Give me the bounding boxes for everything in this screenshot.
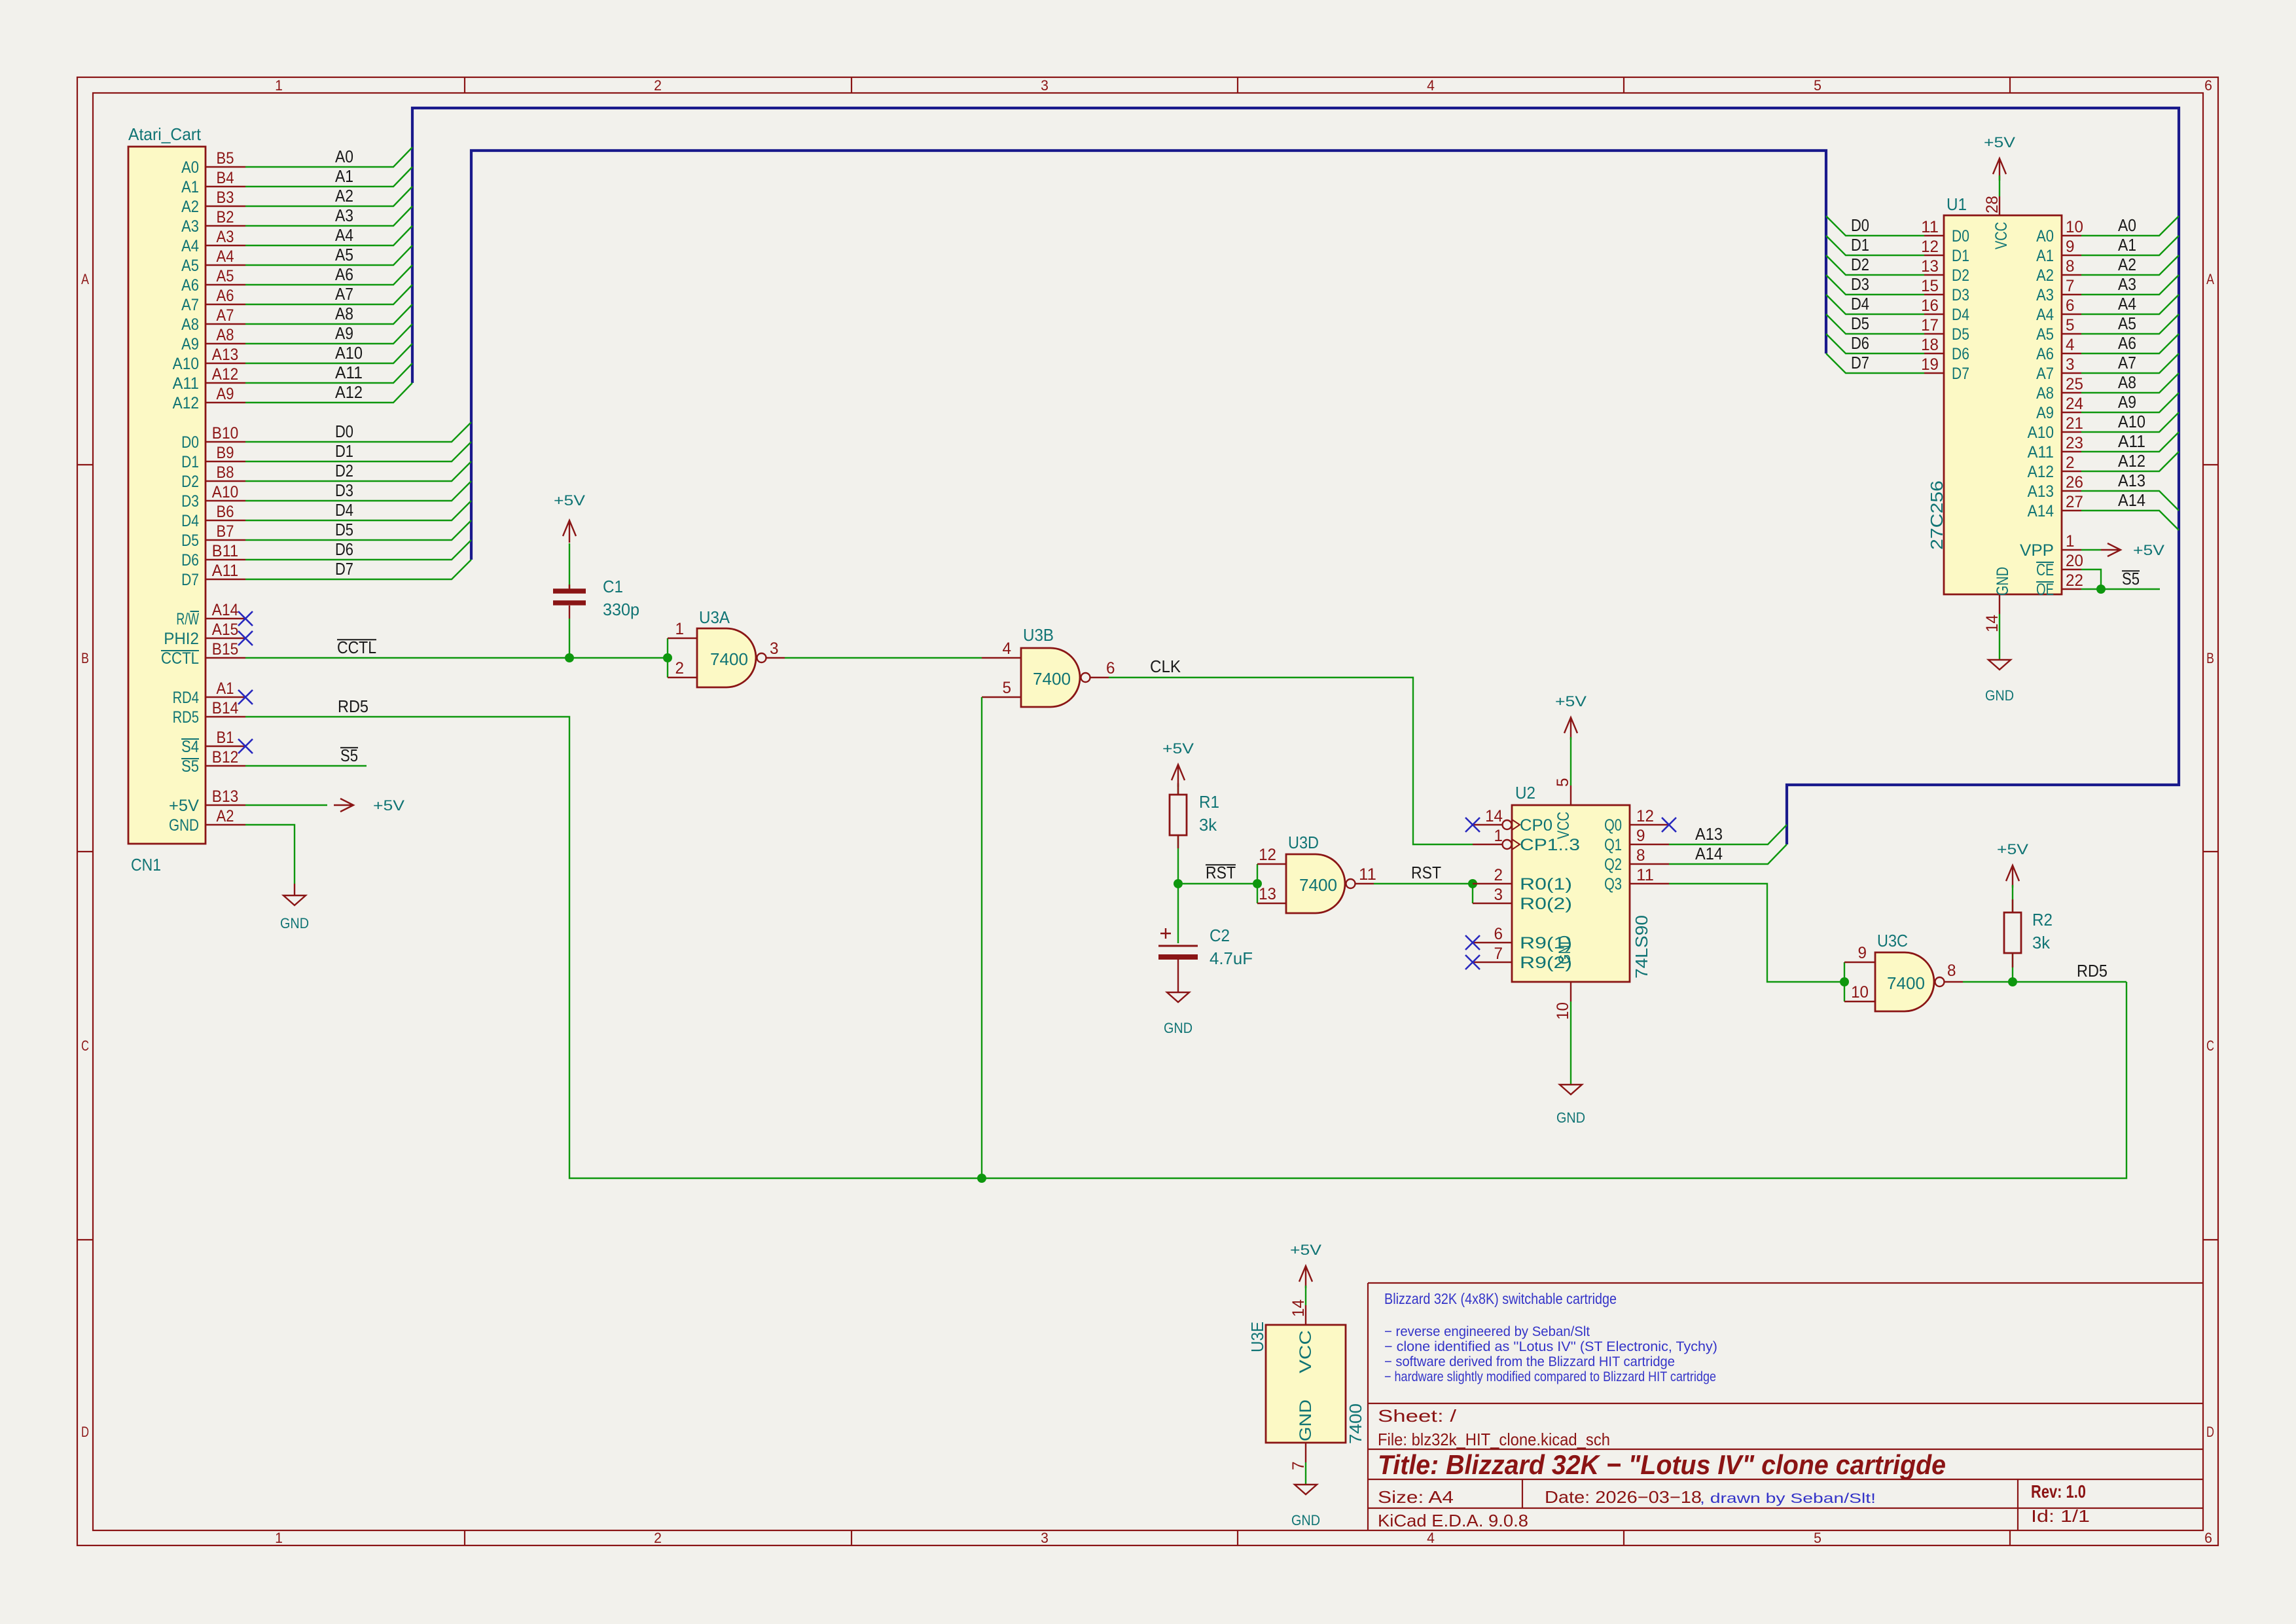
svg-text:A9: A9: [181, 335, 199, 353]
wire U2 Q3 to U3C inputs: [1669, 884, 1844, 982]
svg-text:A8: A8: [181, 316, 199, 334]
CN1 pin A12 (A11 side A): [173, 365, 245, 393]
CN1 pin B2 (A3 side A): [181, 208, 245, 236]
wire net RST from U3D to U2: [1374, 883, 1473, 884]
svg-text:C2: C2: [1210, 926, 1230, 945]
svg-text:5: 5: [1814, 1530, 1821, 1546]
power symbol +5V above R2: [1997, 841, 2028, 888]
svg-text:13: 13: [1921, 257, 1939, 276]
svg-text:RD4: RD4: [173, 689, 199, 707]
wire net A4 from CN1 to address bus: [245, 226, 412, 245]
wire net S5 at U1: [2081, 588, 2160, 590]
svg-text:R1: R1: [1199, 792, 1219, 812]
U1 pin 1 (VPP): [2020, 532, 2081, 560]
CN1 pin A14 (R/W) no-connect: [176, 601, 245, 628]
svg-text:3k: 3k: [2032, 933, 2051, 952]
U1 pin 18 (D6): [1921, 336, 1969, 363]
svg-text:, drawn by Seban/Slt!: , drawn by Seban/Slt!: [1700, 1491, 1876, 1506]
svg-text:12: 12: [1259, 846, 1276, 864]
CN1 pin B1 (S4) no-connect: [181, 729, 245, 756]
CN1 pin A2 (GND): [169, 807, 245, 835]
CN1 pin B12 (S5): [181, 748, 245, 776]
svg-text:OE: OE: [2036, 581, 2054, 599]
svg-text:D0: D0: [1952, 227, 1969, 245]
U1 pin 15 (D3): [1921, 277, 1969, 304]
svg-text:D6: D6: [1952, 345, 1969, 363]
svg-text:5: 5: [2066, 316, 2075, 334]
power symbol +5V above R1: [1162, 740, 1194, 787]
svg-text:7400: 7400: [1887, 973, 1925, 993]
comment bullet lines: [1384, 1324, 1717, 1384]
CN1 pin A3 (A4 side A): [181, 228, 245, 255]
U1 pin 26 (A13): [2028, 473, 2083, 501]
svg-text:10: 10: [1554, 1002, 1572, 1020]
svg-text:14: 14: [1485, 807, 1503, 825]
svg-text:R9(2): R9(2): [1520, 954, 1572, 972]
U1 pin 13 (D2): [1921, 257, 1969, 285]
svg-text:A10: A10: [173, 355, 199, 373]
wire +5V from CN1: [245, 804, 327, 806]
svg-text:U3D: U3D: [1288, 833, 1319, 852]
CN1 pin A13 (A10 side A): [173, 346, 245, 373]
ground symbol below C2: [1167, 992, 1189, 1002]
svg-text:8: 8: [1636, 846, 1645, 865]
power symbol +5V above U3E: [1290, 1242, 1321, 1288]
wire net A11 from CN1 to address bus: [245, 363, 412, 383]
svg-text:11: 11: [1636, 866, 1654, 884]
wire U3C output to RD5 net: [1963, 981, 2126, 983]
junction U3C inputs: [1840, 977, 1849, 986]
svg-text:A0: A0: [181, 158, 199, 177]
wire GND from CN1: [245, 825, 295, 884]
svg-text:A4: A4: [2036, 306, 2054, 324]
svg-text:GND: GND: [1556, 1110, 1585, 1126]
wire R1 to RST node: [1177, 835, 1179, 884]
junction CCTL / C1: [565, 653, 574, 662]
svg-text:A9: A9: [335, 323, 353, 343]
wire RST-bar node down to C2: [1177, 884, 1179, 943]
svg-text:A8: A8: [2118, 372, 2136, 392]
op-amp U3A 7400 NAND gate: [668, 607, 785, 687]
svg-text:− clone identified as ''Lotus: − clone identified as ''Lotus IV'' (ST E…: [1384, 1339, 1717, 1354]
svg-text:A10: A10: [2028, 424, 2054, 442]
svg-text:B7: B7: [217, 522, 234, 541]
svg-text:A12: A12: [173, 394, 199, 412]
svg-text:5: 5: [1554, 778, 1572, 787]
svg-text:22: 22: [2066, 571, 2083, 590]
svg-text:RD5: RD5: [2077, 961, 2108, 981]
svg-text:Q2: Q2: [1604, 856, 1622, 874]
svg-text:B14: B14: [212, 699, 238, 717]
svg-text:A4: A4: [181, 237, 199, 255]
U1 pin 16 (D4): [1921, 297, 1969, 324]
svg-text:PHI2: PHI2: [164, 630, 199, 648]
svg-text:B11: B11: [212, 542, 238, 560]
wire net A9 from CN1 to address bus: [245, 324, 412, 344]
svg-text:2: 2: [654, 77, 662, 94]
wire net D5 from CN1 to data bus: [245, 520, 471, 540]
svg-text:GND: GND: [1994, 567, 2012, 596]
svg-text:A12: A12: [212, 365, 238, 384]
svg-text:R0(1): R0(1): [1520, 875, 1572, 893]
svg-text:11: 11: [1359, 865, 1376, 884]
svg-text:D6: D6: [181, 551, 199, 569]
wire net D0 from data bus to U1: [1826, 216, 1924, 236]
svg-text:28: 28: [1983, 196, 2001, 213]
ground symbol below U1: [1999, 614, 2000, 660]
svg-text:27C256: 27C256: [1927, 480, 1946, 550]
svg-text:B1: B1: [217, 729, 234, 747]
ground symbol below U3E: [1305, 1462, 1306, 1485]
svg-text:A: A: [81, 271, 89, 287]
svg-text:A1: A1: [217, 679, 234, 698]
CN1 pin B4 (A1 side A): [181, 169, 245, 196]
svg-text:VCC: VCC: [1297, 1330, 1315, 1373]
svg-text:CLK: CLK: [1150, 657, 1181, 676]
power symbol +5V at U1 VPP: [2101, 543, 2121, 556]
CN1 pin B5 (A0 side A): [181, 149, 245, 177]
svg-text:A3: A3: [217, 228, 234, 246]
svg-text:A5: A5: [335, 245, 353, 264]
svg-text:A12: A12: [2028, 463, 2054, 481]
svg-text:24: 24: [2066, 395, 2083, 413]
wire net D3 from CN1 to data bus: [245, 481, 471, 501]
svg-text:9: 9: [2066, 238, 2075, 256]
op-amp U3E 7400 power unit: [1247, 1299, 1365, 1470]
svg-text:B: B: [2206, 650, 2214, 666]
svg-text:A11: A11: [2028, 443, 2054, 461]
wire net A14 from U2 Q2 to bus: [1669, 844, 1787, 864]
svg-text:B3: B3: [217, 189, 234, 207]
U1 pin 10 (A0): [2036, 218, 2083, 245]
svg-text:7: 7: [1494, 945, 1503, 963]
svg-text:− hardware slightly modified c: − hardware slightly modified compared to…: [1384, 1369, 1716, 1384]
ground symbol below CN1: [294, 884, 295, 895]
wire net D6 from CN1 to data bus: [245, 540, 471, 560]
CN1 pin A6 (A7 side A): [181, 287, 245, 314]
svg-text:C1: C1: [603, 577, 623, 596]
svg-text:D7: D7: [1952, 365, 1969, 383]
wire net A7 from CN1 to address bus: [245, 285, 412, 304]
power symbol +5V above U2: [1555, 693, 1587, 740]
no-connect X on U2 R9(2): [1465, 955, 1480, 969]
CN1 pin B14 (RD5): [173, 699, 245, 727]
junction U3D inputs: [1253, 879, 1262, 888]
svg-text:74LS90: 74LS90: [1632, 915, 1651, 979]
svg-text:4.7uF: 4.7uF: [1210, 948, 1253, 968]
wire +5V to R2: [2012, 885, 2013, 912]
svg-text:CCTL: CCTL: [161, 649, 199, 668]
ground symbol below U2: [1570, 1001, 1571, 1085]
svg-text:1: 1: [1494, 827, 1503, 845]
svg-text:− reverse engineered by Seban/: − reverse engineered by Seban/Slt: [1384, 1324, 1590, 1339]
svg-text:− software derived from the Bl: − software derived from the Blizzard HIT…: [1384, 1354, 1675, 1369]
svg-text:B5: B5: [217, 149, 234, 168]
U1 pin 12 (D1): [1921, 238, 1969, 265]
svg-text:D: D: [2206, 1424, 2214, 1440]
wire net A11 from U1 to address bus: [2081, 432, 2179, 452]
wire CE down to S5 net: [2081, 569, 2101, 589]
wire net RD5 from CN1 down and across: [245, 717, 2126, 1178]
svg-text:3: 3: [1041, 1530, 1049, 1546]
svg-text:Atari_Cart: Atari_Cart: [128, 124, 202, 144]
svg-text:8: 8: [1947, 962, 1956, 980]
svg-text:A14: A14: [2028, 502, 2054, 520]
wire net D1 from data bus to U1: [1826, 236, 1924, 255]
svg-text:Date: 2026−03−18: Date: 2026−03−18: [1545, 1487, 1702, 1507]
svg-text:A7: A7: [335, 284, 353, 304]
svg-text:R2: R2: [2032, 910, 2053, 929]
svg-text:GND: GND: [1291, 1512, 1320, 1528]
wire net D5 from data bus to U1: [1826, 314, 1924, 334]
svg-text:A3: A3: [335, 206, 353, 225]
svg-text:A11: A11: [212, 562, 238, 580]
svg-text:25: 25: [2066, 375, 2083, 393]
wire net A6 from CN1 to address bus: [245, 265, 412, 285]
wire U2 R0 bracket: [1472, 884, 1473, 903]
no-connect X on U2 Q0: [1662, 818, 1676, 832]
svg-text:Title: Blizzard 32K − "Lotus I: Title: Blizzard 32K − "Lotus IV" clone c…: [1378, 1449, 1946, 1480]
svg-text:C: C: [81, 1038, 89, 1054]
svg-text:A6: A6: [217, 287, 234, 305]
svg-text:B10: B10: [212, 424, 238, 442]
wire net S5 from CN1: [245, 765, 367, 767]
junction RST-bar node: [1174, 879, 1183, 888]
U1 pin 8 (A2): [2036, 257, 2081, 285]
wire net CLK from U3B to U2 CP1..3: [1109, 677, 1473, 844]
svg-text:A1: A1: [181, 178, 199, 196]
svg-text:R9(1): R9(1): [1520, 934, 1572, 952]
svg-text:19: 19: [1921, 355, 1939, 374]
svg-text:VCC: VCC: [1554, 812, 1573, 839]
resistor R2 3k: [2004, 910, 2053, 953]
svg-text:+5V: +5V: [554, 492, 585, 509]
svg-text:A5: A5: [181, 257, 199, 275]
svg-text:3: 3: [770, 640, 779, 658]
svg-text:D1: D1: [335, 441, 353, 461]
CN1 pin A5 (A6 side A): [181, 267, 245, 295]
CN1 pin B10 (D0): [181, 424, 245, 452]
svg-text:D: D: [81, 1424, 89, 1440]
svg-text:U3B: U3B: [1023, 625, 1054, 645]
svg-text:B9: B9: [217, 444, 234, 462]
U1 pin 23 (A11): [2028, 434, 2083, 461]
svg-text:A0: A0: [335, 147, 353, 166]
wire net A3 from U1 to address bus: [2081, 275, 2179, 295]
svg-text:A0: A0: [2036, 227, 2054, 245]
address bus (CN1 to U1): [412, 108, 2179, 844]
svg-text:B: B: [81, 650, 89, 666]
capacitor C2 4.7uF polarized: [1158, 926, 1253, 992]
U1 pin 22 (OE): [2036, 571, 2083, 599]
svg-text:A4: A4: [2118, 294, 2136, 314]
svg-text:2: 2: [1494, 866, 1503, 884]
svg-text:Sheet: /: Sheet: /: [1378, 1406, 1457, 1426]
svg-text:1: 1: [275, 77, 283, 94]
svg-text:2: 2: [2066, 454, 2075, 472]
svg-text:D6: D6: [335, 539, 353, 559]
wire net D7 from data bus to U1: [1826, 353, 1924, 373]
svg-text:GND: GND: [169, 816, 199, 835]
svg-text:4: 4: [1427, 77, 1435, 94]
svg-text:A3: A3: [2118, 274, 2136, 294]
svg-text:D2: D2: [1851, 255, 1869, 274]
svg-text:GND: GND: [1297, 1399, 1315, 1441]
svg-text:A12: A12: [335, 382, 363, 402]
svg-text:U3A: U3A: [699, 607, 730, 627]
svg-text:+5V: +5V: [1984, 134, 2015, 151]
svg-text:5: 5: [1003, 679, 1012, 697]
wire VPP to +5V: [2081, 549, 2101, 550]
svg-text:4: 4: [1003, 640, 1012, 658]
svg-text:D1: D1: [1851, 235, 1869, 255]
svg-text:D3: D3: [1851, 274, 1869, 294]
svg-text:A9: A9: [2036, 404, 2054, 422]
svg-text:D3: D3: [335, 480, 353, 500]
wire net D2 from data bus to U1: [1826, 255, 1924, 275]
wire net A12 from U1 to address bus: [2081, 452, 2179, 471]
svg-text:A: A: [2206, 271, 2214, 287]
svg-text:C: C: [2206, 1038, 2214, 1054]
svg-text:330p: 330p: [603, 600, 639, 619]
svg-text:A8: A8: [217, 326, 234, 344]
svg-text:D3: D3: [181, 492, 199, 511]
svg-text:23: 23: [2066, 434, 2083, 452]
svg-text:+5V: +5V: [1997, 841, 2028, 857]
svg-text:CCTL: CCTL: [337, 638, 376, 657]
svg-text:A11: A11: [2118, 431, 2145, 451]
svg-text:D4: D4: [181, 512, 199, 530]
svg-text:7400: 7400: [1033, 669, 1071, 689]
wire +5V to R1: [1177, 784, 1179, 795]
wire net A9 from U1 to address bus: [2081, 393, 2179, 412]
wire net CCTL from CN1 to U3A inputs: [245, 657, 668, 659]
svg-text:A15: A15: [212, 621, 238, 639]
svg-text:27: 27: [2066, 493, 2083, 511]
wire +5V to U1 VCC: [1999, 175, 2000, 196]
svg-text:4: 4: [1427, 1530, 1435, 1546]
svg-text:7: 7: [2066, 277, 2075, 295]
svg-text:D3: D3: [1952, 286, 1969, 304]
op-amp U3B 7400 NAND gate: [982, 625, 1115, 707]
svg-text:3: 3: [2066, 355, 2075, 374]
svg-text:A8: A8: [2036, 384, 2054, 403]
svg-text:3: 3: [1041, 77, 1049, 94]
svg-text:D4: D4: [1851, 294, 1869, 314]
svg-text:D2: D2: [1952, 266, 1969, 285]
svg-text:12: 12: [1921, 238, 1939, 256]
wire net A2 from CN1 to address bus: [245, 187, 412, 206]
svg-text:A4: A4: [335, 225, 353, 245]
svg-text:A6: A6: [2036, 345, 2054, 363]
op-amp U3C 7400 NAND gate: [1844, 931, 1963, 1011]
svg-text:1: 1: [275, 1530, 283, 1546]
svg-text:1: 1: [2066, 532, 2075, 550]
svg-text:A2: A2: [181, 198, 199, 216]
svg-text:13: 13: [1259, 885, 1276, 903]
svg-text:10: 10: [1851, 983, 1869, 1001]
svg-text:26: 26: [2066, 473, 2083, 492]
svg-text:2: 2: [654, 1530, 662, 1546]
svg-text:A2: A2: [2118, 255, 2136, 274]
wire net A4 from U1 to address bus: [2081, 295, 2179, 314]
svg-text:+5V: +5V: [1290, 1242, 1321, 1258]
svg-text:A13: A13: [2028, 482, 2054, 501]
connector CN1 Atari_Cart: [128, 124, 206, 875]
wire R2 to RD5 net: [2012, 953, 2013, 982]
junction RST / U2 R0 inputs: [1468, 879, 1477, 888]
svg-text:CP0: CP0: [1520, 816, 1552, 835]
svg-text:D2: D2: [335, 461, 353, 480]
svg-text:1: 1: [675, 620, 685, 638]
svg-text:D5: D5: [181, 532, 199, 550]
U1 pin 2 (A12): [2028, 454, 2081, 481]
wire U3D input bracket: [1257, 864, 1258, 903]
wire +5V to U3E VCC: [1305, 1286, 1306, 1305]
svg-text:A1: A1: [335, 166, 353, 186]
svg-text:B12: B12: [212, 748, 238, 767]
svg-text:18: 18: [1921, 336, 1939, 354]
svg-text:A10: A10: [2118, 412, 2145, 431]
wire net A13 from U2 Q1 to bus: [1669, 825, 1787, 844]
svg-text:A7: A7: [2118, 353, 2136, 372]
svg-text:+5V: +5V: [1555, 693, 1587, 710]
op-amp U3D 7400 NAND gate: [1257, 833, 1376, 913]
svg-text:D7: D7: [181, 571, 199, 589]
svg-text:GND: GND: [280, 915, 309, 931]
no-connect X on U2 CP0: [1465, 818, 1480, 832]
svg-text:D7: D7: [335, 559, 353, 579]
wire +5V to U2 VCC: [1570, 737, 1571, 785]
svg-text:A11: A11: [335, 363, 363, 382]
svg-text:A6: A6: [2118, 333, 2136, 353]
wire net A8 from CN1 to address bus: [245, 304, 412, 324]
svg-text:7400: 7400: [710, 649, 748, 669]
CN1 pin B11 (D6): [181, 542, 245, 569]
svg-text:A3: A3: [2036, 286, 2054, 304]
data bus (CN1 to U1): [471, 151, 1826, 560]
power symbol +5V above U1: [1984, 134, 2015, 181]
svg-text:VPP: VPP: [2020, 541, 2054, 560]
CN1 pin B9 (D1): [181, 444, 245, 471]
svg-text:D7: D7: [1851, 353, 1869, 372]
wire net D4 from data bus to U1: [1826, 295, 1924, 314]
svg-text:12: 12: [1636, 807, 1654, 825]
svg-text:A2: A2: [2036, 266, 2054, 285]
title block: [1368, 1283, 2203, 1530]
svg-text:+5V: +5V: [1162, 740, 1194, 757]
svg-text:A2: A2: [335, 186, 353, 206]
svg-text:9: 9: [1636, 827, 1645, 845]
svg-text:A0: A0: [2118, 215, 2136, 235]
svg-text:A5: A5: [217, 267, 234, 285]
wire net A6 from U1 to address bus: [2081, 334, 2179, 353]
svg-text:D0: D0: [335, 422, 353, 441]
wire U3B pin5 down to RD5 net: [981, 697, 982, 1178]
svg-text:D1: D1: [1952, 247, 1969, 265]
svg-text:A5: A5: [2118, 314, 2136, 333]
svg-text:A13: A13: [1695, 824, 1723, 844]
svg-text:CP1..3: CP1..3: [1520, 836, 1580, 854]
junction RD5 / U3B pin5: [977, 1174, 986, 1183]
svg-text:A14: A14: [212, 601, 238, 619]
svg-text:Q1: Q1: [1604, 836, 1622, 854]
junction CE / OE: [2096, 585, 2106, 594]
svg-text:D0: D0: [1851, 215, 1869, 235]
svg-text:A13: A13: [2118, 471, 2145, 490]
svg-text:B6: B6: [217, 503, 234, 521]
svg-text:A8: A8: [335, 304, 353, 323]
